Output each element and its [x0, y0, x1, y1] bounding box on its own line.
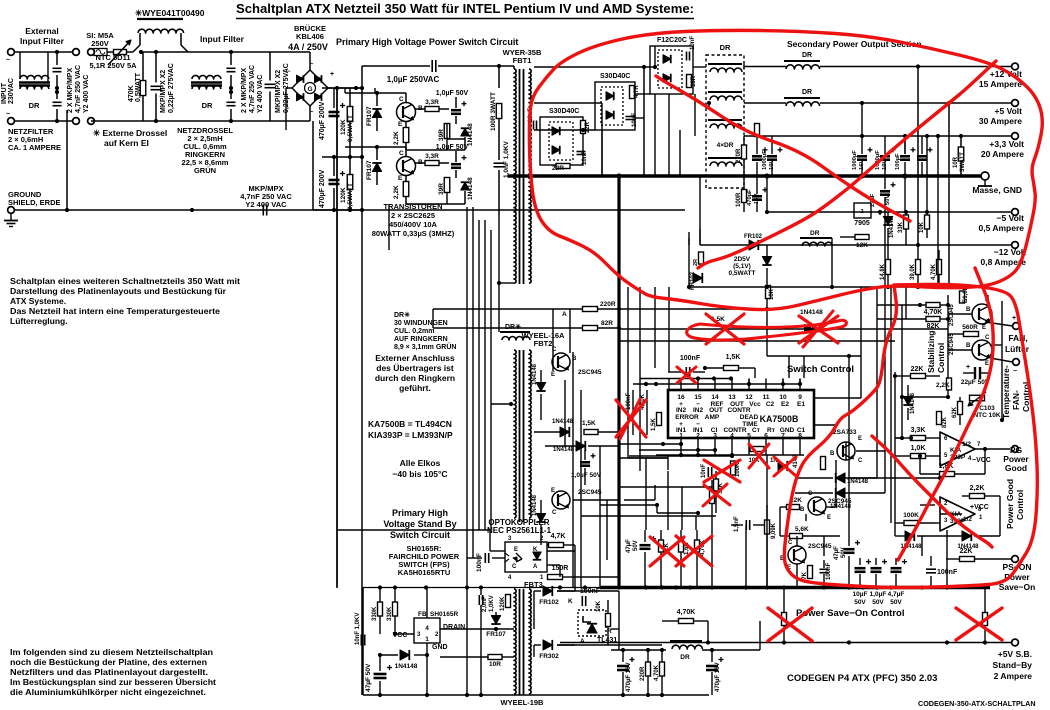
diode FR302 [543, 640, 552, 650]
transformer FBT1 primary winding [514, 69, 516, 283]
resistor 22R s1c [556, 164, 570, 169]
svg-text:20 Ampere: 20 Ampere [981, 149, 1024, 159]
terminal FAN- [1013, 359, 1020, 366]
transistor 2SC945 sc2 [788, 546, 806, 564]
transistor 2SC945 bottom [552, 491, 570, 509]
cap 1,5nF [745, 520, 747, 530]
resistor 39R b [444, 178, 450, 193]
resistor 3,3R a [425, 107, 439, 112]
svg-text:39R: 39R [438, 129, 445, 141]
svg-text:Input Filter: Input Filter [200, 34, 245, 44]
svg-text:100R 3WATT: 100R 3WATT [490, 92, 497, 131]
svg-text:DRAIN: DRAIN [443, 624, 465, 631]
svg-text:10K: 10K [919, 221, 925, 233]
cap 10nF 1,0KV sb [360, 635, 362, 646]
svg-text:4,7nF 250 VAC: 4,7nF 250 VAC [75, 65, 82, 113]
transformer FBT1 secondary winding [529, 69, 531, 283]
svg-text:4,7µF: 4,7µF [888, 591, 905, 598]
svg-text:−VCC: −VCC [972, 457, 991, 464]
svg-text:Stand−By: Stand−By [993, 660, 1033, 670]
svg-text:durch den Ringkern: durch den Ringkern [375, 373, 455, 383]
svg-text:Control: Control [936, 343, 946, 373]
svg-text:50V: 50V [890, 599, 902, 606]
terminal +12V [1012, 63, 1019, 70]
svg-text:E2: E2 [781, 401, 789, 408]
wire sb top rail [362, 588, 364, 696]
wire fbt1 bottom link [498, 214, 500, 283]
svg-text:GRÜN: GRÜN [194, 166, 216, 175]
resistor 22K sc [787, 505, 800, 510]
svg-text:9,09K: 9,09K [771, 522, 777, 539]
svg-text:F12C20C: F12C20C [657, 37, 687, 44]
svg-text:FR102: FR102 [539, 599, 559, 606]
svg-text:FR102: FR102 [744, 234, 763, 240]
svg-text:1N4148: 1N4148 [553, 447, 575, 453]
svg-text:270R: 270R [736, 148, 742, 163]
resistor 2,2K a [403, 128, 409, 143]
diode 1N4148 pg b [836, 488, 845, 498]
cap 470uF 16V a [617, 665, 629, 668]
resistor 10K xcol [750, 447, 764, 452]
op-amp KIA393P lower [940, 497, 975, 531]
input coil L1 [137, 18, 183, 20]
svg-text:5,6K: 5,6K [795, 526, 809, 533]
resistor 4,70K vreg2 [660, 662, 665, 676]
wire switch control row a [619, 308, 767, 310]
diode 1N4148 pg a [836, 473, 845, 483]
wire input top [15, 51, 58, 53]
svg-text:1N4148: 1N4148 [800, 309, 823, 316]
svg-text:Im Bestückungsplan sind zur be: Im Bestückungsplan sind zur besseren Übe… [10, 677, 216, 687]
svg-text:KIA393P = LM393N/P: KIA393P = LM393N/P [368, 430, 453, 440]
red X over 1N4148 below IC [774, 457, 796, 476]
thick vertical bus ctrl [617, 176, 620, 587]
svg-text:FR107: FR107 [486, 631, 506, 638]
wire left ctrl verticals [572, 352, 574, 587]
svg-text:2,2K: 2,2K [393, 185, 400, 199]
wire fan col2 [1001, 301, 1003, 420]
svg-text:100nF: 100nF [476, 553, 483, 572]
svg-text:2,2K: 2,2K [936, 382, 950, 389]
red X stroke B over secondary [656, 76, 910, 221]
resistor xcross1 [782, 613, 787, 626]
svg-text:DR✳: DR✳ [505, 323, 521, 331]
svg-text:Externer Anschluss: Externer Anschluss [375, 353, 455, 363]
red X over 10nF 33K [704, 460, 740, 482]
resistor 2K vert [821, 457, 826, 470]
diode FR102 sb [543, 586, 552, 596]
resistor xcross2 [983, 613, 988, 626]
svg-text:62K: 62K [952, 406, 958, 418]
svg-text:E: E [551, 488, 555, 494]
transistor 2SC945 sc1 [808, 497, 826, 515]
svg-text:Im folgenden sind zu diesem Ne: Im folgenden sind zu diesem Netzteilscha… [10, 647, 213, 657]
resistor 10R 3WATT [958, 147, 964, 161]
svg-text:geführt.: geführt. [399, 383, 431, 393]
svg-text:AMP: AMP [705, 414, 720, 421]
cap 47uF 50V sb [374, 673, 387, 676]
terminal FAN+ [1013, 323, 1020, 330]
wire stab col [947, 295, 949, 397]
resistor 33K bottom [714, 479, 719, 491]
wire drain link [478, 628, 496, 630]
transformer FBT1 core [519, 69, 521, 284]
svg-text:39R: 39R [438, 183, 445, 195]
resistor 10R sb [488, 655, 502, 660]
resistor 10K tl [607, 600, 609, 613]
cap 10nF bottom [707, 467, 709, 477]
svg-text:E: E [398, 121, 403, 128]
red X stroke A over secondary [698, 61, 996, 268]
svg-text:✳ Externe Drossel: ✳ Externe Drossel [93, 128, 167, 138]
svg-text:4,70K: 4,70K [924, 309, 943, 316]
svg-text:15 Ampere: 15 Ampere [979, 79, 1022, 89]
diode 1N4148 sb [400, 650, 409, 660]
IC pin stubs top [680, 379, 682, 391]
svg-text:15R: 15R [691, 75, 697, 87]
svg-text:220R: 220R [600, 301, 616, 308]
red blob around bottom-right section [784, 284, 1037, 587]
red X over resistor ps-on [768, 608, 812, 641]
svg-text:450/400V 10A: 450/400V 10A [389, 220, 438, 229]
svg-text:2 X MKP/MPX: 2 X MKP/MPX [241, 68, 248, 113]
svg-text:12: 12 [745, 394, 753, 401]
resistor 1,5K vert [657, 413, 662, 426]
red double X over 62K 1,6K 4,70K [650, 537, 684, 566]
wire top rail to bridge filter [141, 51, 231, 53]
resistor 330K a [378, 602, 383, 616]
svg-text:IN2: IN2 [693, 407, 704, 414]
svg-text:120K: 120K [340, 119, 347, 135]
svg-text:1,0µF 50V: 1,0µF 50V [436, 90, 469, 97]
diode FR107 a [372, 109, 381, 118]
red long stroke D2 bottom-right [898, 268, 993, 560]
svg-text:10R: 10R [489, 661, 501, 668]
wire sb ic [395, 633, 414, 635]
svg-text:0,5 Ampere: 0,5 Ampere [978, 223, 1024, 233]
svg-text:0,5WATT: 0,5WATT [135, 72, 142, 102]
coil DR vreg [672, 645, 702, 649]
transistor 2SA733 [837, 442, 855, 460]
svg-text:2,0nF: 2,0nF [482, 596, 488, 612]
terminal +5VSB [1012, 639, 1019, 646]
svg-text:FB: FB [418, 611, 427, 618]
svg-text:39,0K: 39,0K [910, 263, 916, 280]
svg-text:C: C [858, 458, 863, 464]
svg-text:4,7R: 4,7R [634, 85, 640, 98]
resistor 2,2K pg [970, 494, 985, 499]
svg-text:IN2: IN2 [676, 407, 687, 414]
red loop scribble over 1,5K row [687, 320, 847, 340]
svg-text:1N4148: 1N4148 [889, 216, 895, 238]
diode 1N 4148 xcol [778, 461, 787, 471]
svg-text:16: 16 [677, 394, 685, 401]
svg-text:1N4148: 1N4148 [467, 177, 474, 200]
terminal Masse GND [981, 172, 989, 180]
wire FR102 col [688, 238, 690, 287]
junction [55, 50, 59, 54]
wire sb verticals [466, 587, 468, 695]
svg-text:E: E [985, 361, 989, 367]
svg-text:22K: 22K [960, 548, 973, 555]
svg-text:KA5H0165RTU: KA5H0165RTU [398, 568, 451, 577]
resistor 100K pg [904, 521, 918, 526]
wire left rails primary [345, 92, 365, 94]
svg-text:2SC945: 2SC945 [578, 369, 602, 376]
wires below ic [667, 455, 669, 470]
svg-text:B: B [830, 451, 835, 457]
svg-text:470µF: 470µF [747, 189, 753, 206]
svg-text:DR: DR [680, 654, 690, 661]
svg-text:CA. 1 AMPERE: CA. 1 AMPERE [8, 143, 61, 152]
resistor 4,7R [630, 86, 635, 99]
svg-text:1N4148: 1N4148 [467, 123, 474, 146]
svg-text:Netzfilters und das Platinenla: Netzfilters und das Platinenlayout darge… [10, 667, 208, 677]
svg-text:MKP/MPX X2: MKP/MPX X2 [275, 70, 282, 113]
diode 1N4148 crossed [805, 324, 814, 333]
svg-text:−12 Volt: −12 Volt [994, 247, 1026, 257]
wire -5 rail [767, 211, 1012, 213]
transformer FBT3 left winding [514, 589, 516, 694]
svg-text:Good: Good [1005, 463, 1027, 473]
node bulk [360, 86, 364, 90]
resistor 120K b [347, 175, 353, 190]
cap 47uF 50V mid [640, 544, 651, 547]
svg-text:2D5V: 2D5V [734, 256, 751, 263]
svg-text:47µF: 47µF [626, 539, 632, 553]
wire sb mid verticals [645, 458, 647, 530]
resistor 82R ctrl [583, 326, 598, 331]
svg-text:1/2: 1/2 [962, 441, 971, 448]
resistor 33K out [904, 215, 909, 229]
svg-text:CODEGEN P4 ATX (PFC) 350 2.03: CODEGEN P4 ATX (PFC) 350 2.03 [787, 673, 937, 684]
svg-text:11: 11 [763, 394, 770, 401]
svg-text:10nF 1,0KV: 10nF 1,0KV [355, 613, 361, 645]
svg-text:Switch Control: Switch Control [787, 364, 854, 375]
ecap row psu bottom [855, 567, 866, 570]
title underline [236, 18, 694, 20]
svg-text:Power Good: Power Good [1005, 479, 1015, 529]
cap 1,0uF 50V a [451, 109, 461, 112]
wire cap a [155, 52, 157, 83]
svg-text:10R: 10R [953, 156, 959, 168]
svg-text:Save−On: Save−On [999, 582, 1036, 592]
svg-text:22K: 22K [911, 366, 924, 373]
caps row below GND bus [752, 195, 762, 198]
svg-text:120K: 120K [340, 187, 347, 203]
diode 1N4148 mid row2 [576, 441, 585, 451]
svg-text:10nF: 10nF [632, 113, 638, 127]
svg-text:CONTR: CONTR [723, 427, 746, 434]
svg-text:Masse, GND: Masse, GND [972, 185, 1022, 195]
diode 1N4148 b [461, 182, 470, 190]
svg-text:2SC945: 2SC945 [828, 498, 852, 505]
svg-text:SHIELD, ERDE: SHIELD, ERDE [8, 198, 61, 207]
svg-text:22R: 22R [585, 121, 591, 133]
svg-text:Schaltplan eines weiteren Scha: Schaltplan eines weiteren Schaltnetzteil… [10, 276, 240, 286]
wire primary frame [374, 88, 376, 93]
wire vreg row [611, 649, 666, 651]
wire +5VSB rail [560, 642, 1012, 644]
resistor 62K stab [958, 402, 963, 415]
terminal -12V [1012, 242, 1019, 249]
svg-text:Alle Elkos: Alle Elkos [400, 458, 441, 468]
svg-text:DR: DR [202, 101, 213, 110]
cap 1,0uF 250VAC [362, 65, 430, 67]
svg-text:1: 1 [425, 636, 429, 643]
bridge rectifier G [292, 70, 328, 106]
svg-text:+3,3 Volt: +3,3 Volt [989, 139, 1024, 149]
wire mid verticals [466, 250, 468, 530]
resistor 82K stab [926, 317, 940, 322]
wire ic right links [814, 397, 861, 399]
svg-text:1,0K: 1,0K [911, 445, 926, 452]
svg-text:FAN,: FAN, [1008, 333, 1027, 343]
terminal +3,3V [1012, 133, 1019, 140]
regulator 7905 [854, 203, 871, 218]
svg-text:9: 9 [798, 394, 802, 401]
svg-text:FR107: FR107 [366, 160, 373, 180]
svg-text:KBL406: KBL406 [296, 32, 324, 41]
svg-text:82K: 82K [942, 416, 948, 428]
svg-text:DR: DR [29, 101, 40, 110]
wire pg diode rows [795, 477, 833, 479]
wire ctrl net verticals [788, 356, 790, 378]
cap 1,0uF 50V mid [580, 461, 590, 464]
wire pg net [935, 437, 940, 439]
resistor 82K stab2 [937, 412, 942, 425]
transformer FBT2 right winding [529, 350, 531, 518]
svg-text:1,0KV: 1,0KV [489, 595, 495, 612]
wire sb bottom rail [363, 694, 709, 696]
resistor 10K z [766, 286, 771, 299]
svg-text:Y2 400 VAC: Y2 400 VAC [245, 200, 287, 209]
svg-text:50V: 50V [885, 195, 891, 205]
zener 2D5V [762, 257, 771, 266]
svg-text:1,0µF: 1,0µF [870, 591, 887, 598]
svg-text:C: C [552, 510, 557, 516]
svg-text:Stabilizing: Stabilizing [926, 331, 936, 374]
terminal PS-ON [1012, 556, 1019, 563]
cap 100nF psu [926, 568, 936, 570]
svg-text:82R: 82R [601, 320, 613, 327]
resistor 1,0K pg [911, 454, 926, 459]
red X over resistor right [956, 608, 1002, 640]
svg-text:Temperature-: Temperature- [1001, 365, 1011, 419]
wire rail seg2 [229, 50, 233, 54]
cap 100nF opto [484, 553, 486, 563]
wires q1 cluster [405, 93, 407, 102]
svg-text:2 Ampere: 2 Ampere [994, 671, 1033, 681]
svg-text:C: C [512, 564, 517, 570]
svg-text:die Aluminiumkühlkörper nicht: die Aluminiumkühlkörper nicht eingezeich… [10, 687, 206, 697]
resistor 220R vreg [646, 662, 651, 676]
wire below-bus rows [689, 286, 949, 288]
svg-text:1,0µF 50V: 1,0µF 50V [436, 144, 469, 151]
wire bridge in bottom [270, 120, 310, 122]
transistor Q2 2SC2625 [397, 157, 416, 176]
cap CX3 [227, 67, 236, 69]
svg-text:10nF: 10nF [690, 36, 696, 50]
cap 22uF 50V out [880, 190, 890, 193]
diode 1N4148 pg row b [962, 531, 971, 541]
svg-text:Control: Control [1015, 490, 1025, 520]
svg-text:1N4148: 1N4148 [847, 479, 869, 485]
wire +3,3 rail [744, 135, 1012, 137]
svg-text:0,22µF 275VAC: 0,22µF 275VAC [168, 63, 175, 113]
svg-text:Cт: Cт [752, 427, 760, 434]
svg-text:30 Ampere: 30 Ampere [979, 116, 1022, 126]
wire hv top rail [230, 51, 232, 53]
resistor 120K sb [506, 595, 511, 608]
resistor 15R [687, 75, 692, 88]
wire ctrl horizontals [789, 355, 861, 357]
svg-text:TL431: TL431 [597, 637, 617, 644]
resistor 47K [808, 566, 813, 579]
svg-text:C: C [399, 96, 404, 103]
resistor 2,2K stab [947, 378, 952, 390]
svg-text:1,5K: 1,5K [582, 420, 596, 427]
coil DR out4 [710, 162, 742, 166]
wire mid-left vertical [312, 121, 314, 210]
svg-text:1N4148: 1N4148 [532, 494, 538, 516]
svg-text:3,3R: 3,3R [425, 153, 439, 160]
wire fbt2 links [491, 403, 511, 405]
svg-text:DR✳: DR✳ [394, 311, 410, 319]
transistor 2SC945 fan2 [972, 340, 992, 360]
svg-text:G: G [307, 86, 312, 93]
wire sec top rail [534, 66, 655, 68]
terminal ground [8, 207, 15, 214]
svg-text:DR: DR [802, 52, 812, 59]
svg-text:22R: 22R [552, 165, 564, 172]
svg-text:+: + [966, 364, 970, 371]
red scribble X over 100nF 4,70K labels [616, 400, 646, 437]
svg-text:ERROR: ERROR [675, 414, 699, 421]
cap 470uF 16V b [706, 665, 718, 668]
svg-text:2 X MKP/MPX: 2 X MKP/MPX [67, 68, 74, 113]
resistor 4,70K vreg [679, 619, 694, 624]
svg-text:10: 10 [779, 394, 787, 401]
resistor 22R m [699, 252, 704, 264]
resistor 120K a [347, 107, 353, 122]
svg-text:1N4148: 1N4148 [910, 392, 916, 414]
diode 1N4148 mid row [560, 427, 569, 437]
svg-text:Primary High: Primary High [392, 508, 448, 518]
diode 1N4148 pg row a [905, 531, 914, 541]
svg-text:7905: 7905 [854, 220, 870, 227]
svg-text:100nF: 100nF [826, 562, 832, 580]
svg-text:100µF: 100µF [895, 153, 901, 170]
svg-text:C: C [788, 540, 793, 546]
svg-text:1,5nF: 1,5nF [734, 516, 740, 532]
wire opto links [547, 550, 575, 552]
wire fbt1 feed [498, 66, 500, 88]
terminal +5V [1012, 100, 1019, 107]
cap 47uF 50V right [844, 548, 855, 551]
svg-text:1,0µF 50V: 1,0µF 50V [571, 472, 602, 479]
svg-text:10K: 10K [596, 600, 602, 612]
IC KA7500B box [668, 390, 814, 438]
dashed box 4xDR [706, 55, 744, 188]
svg-text:des Übertragers ist: des Übertragers ist [376, 363, 454, 373]
transformer FBT2 core [519, 350, 521, 522]
svg-text:NTC 10K: NTC 10K [973, 412, 1000, 419]
svg-text:DEAD: DEAD [740, 414, 759, 421]
resistor 22K stab2 [911, 374, 926, 379]
cap CX4 [227, 101, 236, 103]
svg-text:13: 13 [728, 394, 736, 401]
